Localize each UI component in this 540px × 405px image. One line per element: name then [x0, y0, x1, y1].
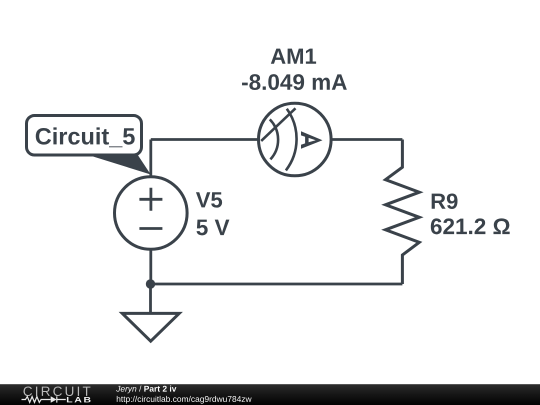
ground [122, 313, 179, 341]
ammeter gauge outer arc [286, 109, 297, 171]
voltage source V5 plus sign [139, 188, 162, 211]
footer title Jeryn / Part 2 iv [116, 386, 136, 394]
resistor R9 [386, 140, 420, 285]
label V5 [196, 192, 222, 207]
wire junction down to ground [149, 284, 152, 312]
footer logo resistor zigzag [22, 396, 66, 402]
ammeter needle [261, 108, 295, 141]
wire bottom from resistor to junction [151, 283, 403, 286]
value 621.2 ohm [431, 218, 510, 234]
ammeter letter A [301, 131, 323, 149]
value 5 V [196, 220, 229, 236]
footer bar [0, 384, 540, 405]
node label Circuit_5 callout tail [83, 154, 150, 175]
wire ammeter right to top-right corner [332, 138, 403, 141]
footer logo LAB [67, 397, 91, 402]
node label Circuit_5 text [36, 127, 135, 147]
value -8.049 mA [242, 74, 347, 90]
wire top-left corner down to V5 plus terminal [149, 140, 152, 177]
voltage source V5 circle [115, 177, 188, 250]
node label Circuit_5 box [27, 116, 142, 156]
wire top node to ammeter left [151, 138, 258, 141]
ammeter gauge inner arc [270, 119, 278, 159]
junction node dot [146, 279, 155, 288]
ammeter AM1 circle [259, 103, 332, 176]
footer logo CIRCUIT [23, 386, 90, 396]
label AM1 [271, 49, 316, 64]
wire V5 minus terminal down to junction [149, 250, 152, 284]
label R9 [432, 193, 458, 209]
footer url [117, 396, 252, 404]
voltage source V5 minus sign [139, 227, 162, 230]
footer logo diode triangle [51, 396, 57, 403]
